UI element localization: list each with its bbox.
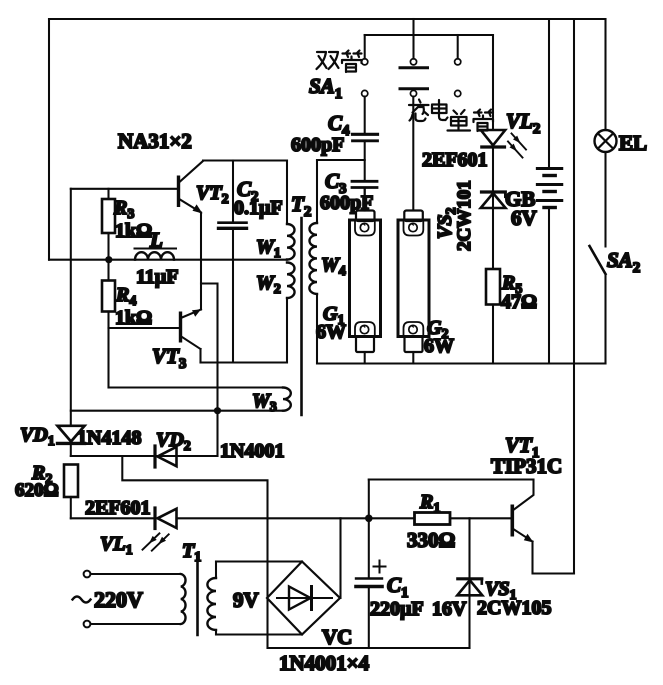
lamp EL: [595, 19, 648, 247]
fluorescent tube G2: [398, 97, 454, 364]
svg-text:1N4148: 1N4148: [77, 427, 141, 449]
wire top rail: [49, 18, 606, 20]
label 充电 (hanzi): [409, 100, 448, 122]
wire left rail down to W3/VD1: [70, 189, 72, 426]
winding W4: [309, 160, 345, 364]
wire node B horizontal (R3/R4 junction row through inductor L): [49, 259, 287, 261]
resistor R3: [102, 189, 152, 260]
svg-text:620Ω: 620Ω: [15, 480, 59, 501]
svg-text:16V: 16V: [432, 598, 467, 620]
LED VL2: [422, 35, 540, 171]
svg-text:6V: 6V: [511, 206, 537, 230]
wire VT2 emitter column: [200, 213, 202, 310]
transformer T1 secondary 9V: [207, 562, 302, 635]
transistor VT3: [152, 309, 201, 372]
switch SA1 pole 1 right contact: [455, 35, 461, 65]
winding W3: [71, 388, 291, 416]
switch SA1 pole 2 left contact: [362, 90, 368, 96]
wire bottom rail DC minus: [268, 647, 470, 649]
resistor R2: [15, 462, 78, 518]
svg-text:11μF: 11μF: [136, 266, 178, 288]
wire VD2 node down to bridge minus: [122, 456, 267, 648]
winding W2: [256, 263, 295, 363]
svg-text:0.1μF: 0.1μF: [234, 197, 283, 219]
diode VD1 1N4148: [20, 424, 141, 456]
svg-text:220V: 220V: [94, 587, 143, 612]
svg-text:220μF: 220μF: [370, 598, 424, 620]
wire VT2 collector to W1 top: [203, 159, 287, 161]
capacitor C3: [320, 169, 377, 214]
switch SA1 pole 1 left contact: [362, 35, 368, 65]
switch SA1 pole 1 wiper: [400, 59, 428, 68]
svg-text:600pF: 600pF: [320, 192, 373, 214]
svg-text:9V: 9V: [233, 588, 259, 612]
svg-text:6W: 6W: [424, 335, 454, 357]
fluorescent tube G1: [316, 189, 381, 364]
transformer T1 core: [196, 562, 199, 635]
svg-text:1N4001×4: 1N4001×4: [279, 651, 370, 675]
resistor R4: [102, 260, 152, 329]
svg-text:1N4001: 1N4001: [220, 440, 284, 462]
svg-text:TIP31C: TIP31C: [491, 454, 562, 478]
svg-text:1kΩ: 1kΩ: [115, 307, 152, 329]
svg-text:L: L: [149, 228, 163, 252]
wire VT2 base row: [71, 188, 177, 190]
svg-text:1kΩ: 1kΩ: [115, 220, 152, 242]
wire node D to R1: [369, 517, 415, 519]
wire left frame vertical: [48, 19, 50, 260]
capacitor C1 electrolytic: [356, 518, 467, 648]
svg-text:2EF601: 2EF601: [422, 149, 488, 171]
diode VD2 1N4001: [155, 429, 284, 467]
switch SA1 middle column from top rail: [412, 19, 414, 59]
wire lower-left common rail (VT3 collector / C2 / W2): [201, 361, 288, 363]
transformer T2 core: [300, 218, 303, 415]
label 双管 (hanzi): [317, 51, 362, 73]
bridge rectifier VC: [267, 562, 370, 676]
wire VD1 to VD2 row: [71, 455, 218, 457]
resistor R1: [407, 491, 511, 552]
mains terminals ~220V: [73, 571, 181, 628]
svg-text:600pF: 600pF: [291, 134, 344, 156]
wire emitter branch to W3 column: [201, 284, 218, 457]
node D junction dot: [365, 515, 373, 523]
svg-text:2CW101: 2CW101: [454, 180, 475, 251]
switch SA1 pole 2 right contact: [455, 90, 461, 96]
junction dot W3 bottom: [214, 407, 221, 414]
wire VL1 to node D: [177, 517, 369, 519]
battery GB: [505, 19, 562, 364]
svg-text:6W: 6W: [316, 321, 346, 343]
transistor VT1 TIP31C: [369, 433, 574, 574]
lamp rail bottom of tube section: [317, 362, 606, 364]
capacitor C4: [291, 97, 378, 181]
wire VT3 base row: [109, 327, 179, 329]
capacitor C2: [219, 161, 283, 363]
zener VS1 2CW105: [457, 518, 551, 648]
switch SA2: [590, 246, 641, 364]
svg-text:47Ω: 47Ω: [501, 291, 537, 313]
label 单管 (hanzi): [448, 110, 494, 132]
LED VL1 2EF601: [85, 497, 177, 558]
wire R2 to VL1: [71, 517, 155, 519]
svg-text:NA31×2: NA31×2: [118, 129, 192, 153]
svg-text:EL: EL: [619, 131, 647, 155]
node B junction dot: [105, 256, 112, 263]
wire W4 top to C4/C3 junction: [317, 159, 365, 161]
winding W1: [256, 161, 295, 262]
switch SA1 pole 2 wiper: [400, 89, 428, 97]
resistor R5: [486, 269, 537, 364]
inductor L: [135, 228, 179, 288]
transformer T1 primary: [181, 574, 186, 624]
wire right rail VT1 emitter to top rail: [573, 19, 575, 574]
transistor VT2: [177, 161, 229, 214]
svg-text:2CW105: 2CW105: [477, 597, 551, 619]
wire R4 column down to W3 top: [107, 328, 109, 388]
switch SA1 wire second rail: [365, 34, 493, 36]
svg-text:VC: VC: [322, 625, 352, 649]
svg-text:330Ω: 330Ω: [407, 528, 455, 552]
svg-text:2EF601: 2EF601: [85, 497, 151, 519]
zener VS2: [434, 149, 506, 269]
wire bridge plus up to node D row: [339, 518, 341, 598]
